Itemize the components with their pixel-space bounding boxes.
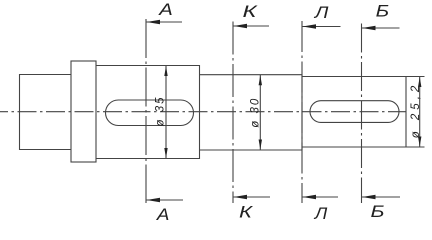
svg-text:ø 25,2: ø 25,2 bbox=[410, 82, 422, 139]
arrowheads d25.2 bbox=[418, 77, 421, 87]
svg-text:К: К bbox=[239, 203, 253, 222]
centerline bbox=[0, 111, 406, 113]
arrow line B top bbox=[362, 27, 400, 29]
svg-text:Б: Б bbox=[371, 202, 385, 221]
arrow line L bottom bbox=[302, 196, 338, 198]
svg-text:А: А bbox=[158, 0, 173, 19]
arrow line K top bbox=[233, 25, 269, 27]
arrowhead L bottom bbox=[303, 195, 317, 199]
arrow line B bottom bbox=[362, 196, 401, 198]
arrowhead A top bbox=[147, 20, 161, 24]
arrow line K bottom bbox=[233, 196, 270, 198]
shaft section d35 bbox=[96, 66, 200, 159]
svg-text:ø 30: ø 30 bbox=[250, 97, 262, 128]
arrowheads d35 bbox=[164, 66, 167, 76]
arrow line A top bbox=[146, 21, 182, 23]
keyway 2 bbox=[310, 101, 399, 123]
shaft section d25.2 bbox=[302, 77, 406, 148]
extension lines d25.2 bbox=[406, 77, 425, 148]
svg-text:К: К bbox=[243, 2, 258, 21]
arrowheads d30 bbox=[259, 75, 262, 85]
svg-text:ø 35: ø 35 bbox=[154, 95, 166, 126]
arrow line A bottom bbox=[146, 199, 183, 201]
shaft left journal bbox=[20, 75, 72, 150]
arrowhead K bottom bbox=[234, 195, 248, 199]
shaft section d30 bbox=[200, 75, 303, 150]
dimension line d30 bbox=[259, 75, 261, 150]
arrowhead A bottom bbox=[147, 198, 161, 202]
svg-text:Б: Б bbox=[376, 2, 390, 21]
arrow line L top bbox=[302, 26, 341, 28]
section line L bbox=[301, 21, 303, 203]
section line K bbox=[232, 22, 234, 204]
svg-text:Л: Л bbox=[314, 204, 328, 222]
arrowhead K top bbox=[234, 24, 248, 28]
shaft collar bbox=[71, 61, 96, 162]
svg-text:Л: Л bbox=[314, 3, 329, 22]
dimension line d25.2 bbox=[419, 77, 421, 148]
arrowhead B top bbox=[362, 26, 376, 30]
arrowhead B bottom bbox=[362, 195, 376, 199]
svg-text:А: А bbox=[156, 205, 170, 222]
dimension line d35 bbox=[165, 66, 167, 159]
keyway 1 bbox=[106, 100, 194, 126]
section line B bbox=[361, 24, 363, 204]
section line A bbox=[145, 19, 147, 203]
arrowhead L top bbox=[303, 24, 317, 28]
